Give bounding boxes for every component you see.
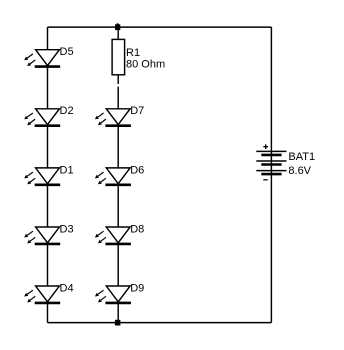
svg-text:D3: D3	[60, 223, 74, 235]
svg-text:D2: D2	[60, 105, 74, 117]
svg-text:D5: D5	[60, 46, 74, 58]
svg-text:BAT1: BAT1	[288, 151, 315, 163]
svg-text:80 Ohm: 80 Ohm	[126, 59, 165, 71]
svg-text:D7: D7	[130, 105, 144, 117]
svg-text:R1: R1	[126, 47, 140, 59]
svg-text:D1: D1	[60, 164, 74, 176]
svg-text:D8: D8	[130, 223, 144, 235]
svg-text:8.6V: 8.6V	[288, 165, 311, 177]
svg-text:D9: D9	[130, 282, 144, 294]
svg-text:D6: D6	[130, 164, 144, 176]
svg-text:D4: D4	[60, 282, 74, 294]
